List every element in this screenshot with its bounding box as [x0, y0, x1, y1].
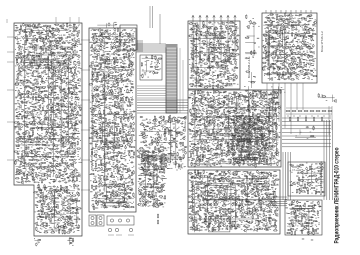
svg-text:Блок УПЧЗ-1-2: Блок УПЧЗ-1-2 [320, 31, 324, 52]
svg-text:Блок АВ: Блок АВ [183, 116, 187, 128]
svg-text:Радиоприемник ЛЕНИНГРАД-010 ст: Радиоприемник ЛЕНИНГРАД-010 стерео [334, 148, 341, 244]
svg-text:Блок обработки сигнала: Блок обработки сигнала [319, 161, 323, 195]
svg-text:Блок УКВ-2-1-Е: Блок УКВ-2-1-Е [247, 56, 251, 78]
